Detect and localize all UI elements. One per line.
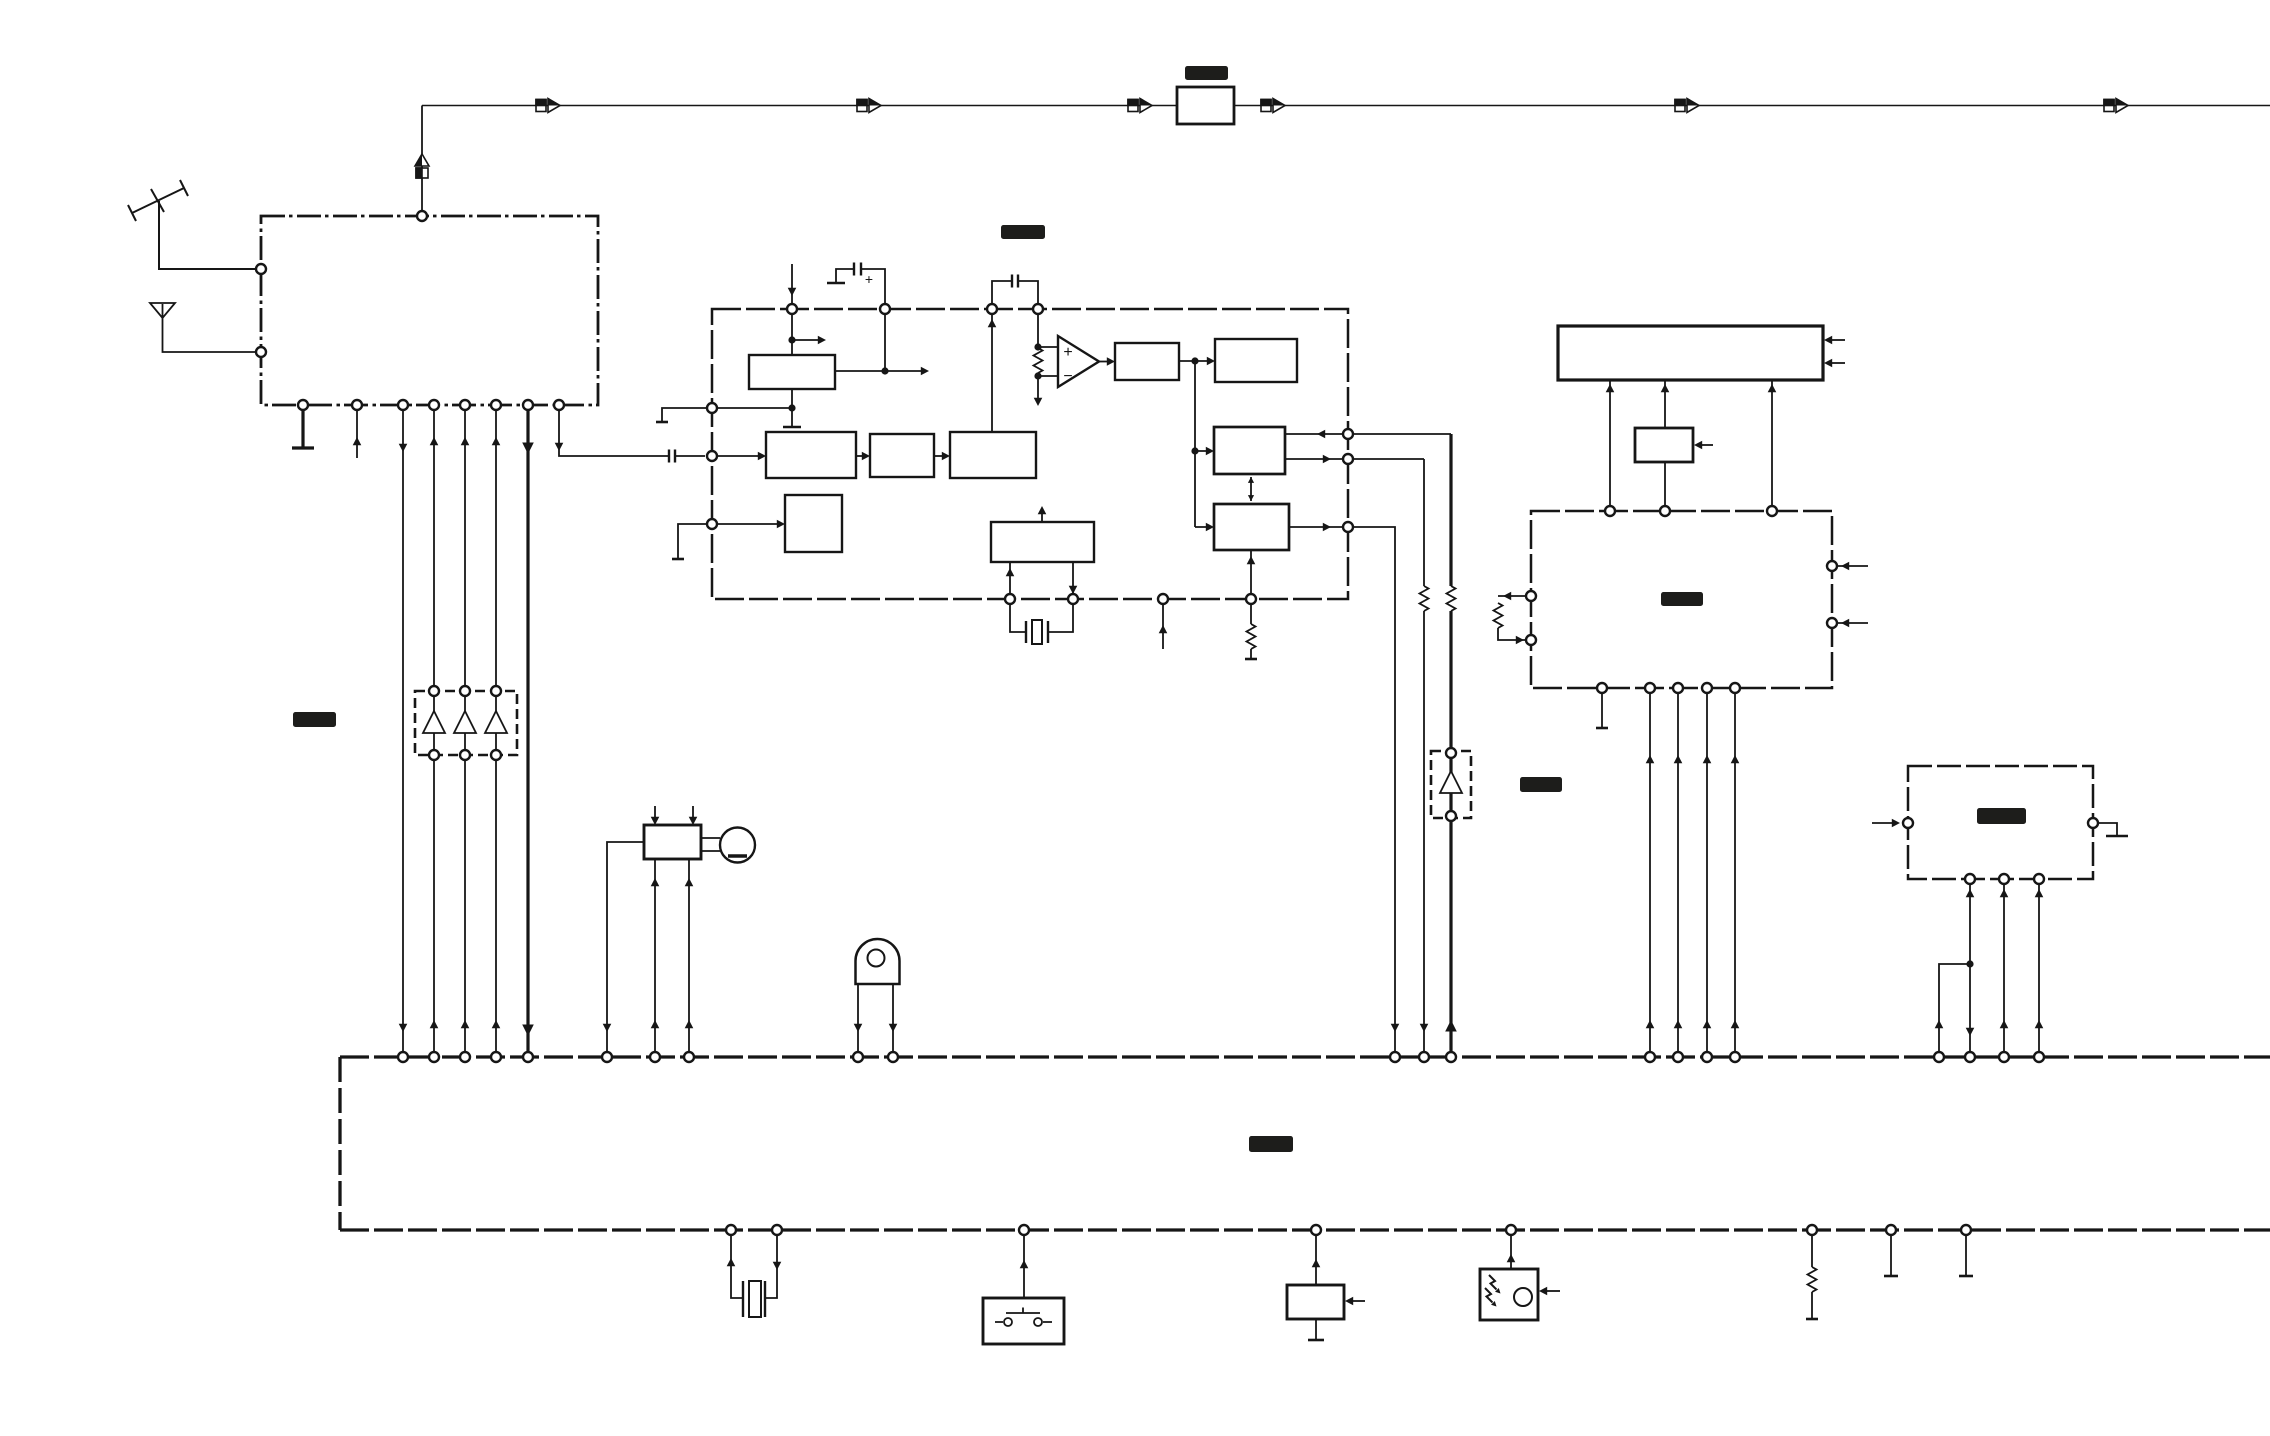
sensor box at board bottom xyxy=(1315,1230,1317,1285)
pins tuner bottom xyxy=(298,400,308,410)
pins IF IC top xyxy=(787,304,797,314)
tuner ground stub pin1 xyxy=(301,405,304,448)
tuner stub pin2 xyxy=(356,405,358,458)
pin tuner AM in xyxy=(256,347,266,357)
ground bar at bypass capacitor xyxy=(827,282,845,285)
oscillator resistor at controller left pins xyxy=(1498,596,1531,640)
in-line filter box on top bus xyxy=(1177,87,1234,124)
capacitor bridging pins T3-T4 xyxy=(992,281,1038,309)
label (redacted) on main board xyxy=(1249,1136,1293,1152)
wire B6 to pin X1 xyxy=(1009,562,1011,599)
wire IC pin R1 to main board (thick, via buffer) xyxy=(1348,433,1451,435)
crystal resonator at IC pins X1-X2 xyxy=(1010,599,1073,632)
wire left pin L3 to external ground xyxy=(678,524,712,559)
motor drive top stub 1 xyxy=(654,806,656,818)
connector symbol 4 on top bus xyxy=(1261,99,1285,113)
wire IR receiver input stub xyxy=(1544,1290,1560,1292)
internal block B2 xyxy=(766,432,856,478)
wire B9 to right pin R1 xyxy=(1285,433,1348,435)
sensor box ground xyxy=(1315,1319,1317,1340)
main board top edge (dashed) xyxy=(340,1055,2270,1058)
wire regulator branch to main board xyxy=(1939,964,1970,1057)
connector symbol 1 on top bus xyxy=(536,99,560,113)
buffer diode block (dashed) xyxy=(1431,751,1471,818)
svg-text:+: + xyxy=(865,271,873,287)
resistor divider at op-amp input xyxy=(1038,309,1058,400)
wire controller right stub 1 xyxy=(1832,565,1868,567)
wire controller right stub 2 xyxy=(1832,622,1868,624)
regulator block (dashed) xyxy=(1908,766,2093,879)
wire tuner pin6 to main board xyxy=(495,405,497,1057)
motor shaft xyxy=(701,838,720,851)
pins controller bottom xyxy=(1597,683,1607,693)
wire tuner output to top bus xyxy=(421,106,423,217)
power switch box xyxy=(1023,1230,1025,1298)
internal block B9 xyxy=(1214,427,1285,474)
pins controller top xyxy=(1605,506,1615,516)
wire B9 to right pin R2 xyxy=(1285,458,1348,460)
svg-text:−: − xyxy=(1063,368,1072,385)
wire op-amp output to B7 xyxy=(1099,361,1109,363)
wire IC pin T2 to bypass capacitor xyxy=(836,269,885,309)
internal block B4 xyxy=(950,432,1036,478)
pins controller right xyxy=(1827,561,1837,571)
internal block B7 xyxy=(1115,343,1179,380)
internal block B10 xyxy=(1214,504,1289,550)
wire IC pin R3 to main board xyxy=(1348,527,1395,1057)
diode array block (dashed) xyxy=(415,691,517,755)
main board left edge (dashed) xyxy=(338,1057,341,1230)
internal block B6 xyxy=(991,522,1094,562)
internal block B5 xyxy=(785,495,842,552)
wire regulator pin 2 to main board xyxy=(2003,879,2005,1057)
connector symbol vertical on tuner wire xyxy=(415,154,429,178)
switch contacts xyxy=(1004,1318,1012,1326)
svg-text:+: + xyxy=(1063,344,1072,361)
internal block B3 xyxy=(870,434,934,477)
wire internal VCO junction with arrow xyxy=(792,309,820,355)
wire tuner pin7 to main board (thick) xyxy=(526,405,529,1057)
label (redacted) for filter box xyxy=(1185,66,1228,80)
wire B10 bottom to pin X4 xyxy=(1250,550,1252,599)
controller ground stub xyxy=(1601,688,1603,728)
connector symbol 2 on top bus xyxy=(857,99,881,113)
wire B6 to pin X2 xyxy=(1072,562,1074,599)
connector symbol 5 on top bus xyxy=(1675,99,1699,113)
driver box xyxy=(1635,428,1693,462)
main board bottom edge (dashed) xyxy=(340,1228,2270,1231)
wire tuner pin5 to main board xyxy=(464,405,466,1057)
label (redacted) above IF IC xyxy=(1001,225,1045,239)
IF/decoder IC block (dashed) xyxy=(712,309,1348,599)
wire controller to main board 4 xyxy=(1734,688,1736,1057)
ground stub at board bottom 1 xyxy=(1890,1230,1892,1276)
resistor to ground at IC bottom pin X4 xyxy=(1250,599,1252,659)
wire top signal bus xyxy=(422,105,2270,107)
motor rotor xyxy=(720,828,755,863)
wire motor box to main board (left elbow) xyxy=(607,842,644,1057)
wire B4 top to pin T3 xyxy=(991,309,993,432)
wire tuner pin8 to IF input cap xyxy=(559,405,705,456)
wire driver input stub xyxy=(1699,444,1713,446)
wire controller to main board 1 xyxy=(1649,688,1651,1057)
IR rays xyxy=(1489,1275,1497,1290)
pins IF IC bottom xyxy=(1005,594,1015,604)
wire sensor box input stub xyxy=(1350,1300,1365,1302)
wire left pin L3 into B5 xyxy=(712,523,779,525)
capacitor IF input xyxy=(669,450,675,463)
wire controller to main board 3 xyxy=(1706,688,1708,1057)
wire B1 right output with arrow xyxy=(835,309,923,371)
wire motor box to main board 2 xyxy=(654,859,656,1057)
wire controller pin to display 1 xyxy=(1609,380,1611,511)
wire B6 top arrow xyxy=(1041,510,1043,522)
wire controller to main board 2 xyxy=(1677,688,1679,1057)
pin buffer bottom xyxy=(1446,811,1456,821)
wire B1 bottom to left pin L1 xyxy=(712,389,792,427)
FM antenna xyxy=(128,180,261,269)
wire vertical feed to B9 and B10 xyxy=(1195,361,1208,527)
AM loop antenna xyxy=(150,303,261,352)
IR receiver photo detector xyxy=(1514,1288,1532,1306)
pin tuner FM in xyxy=(256,264,266,274)
wire LED leg 2 xyxy=(892,984,894,1057)
polarized capacitor at pin T2 xyxy=(854,263,861,276)
display box xyxy=(1558,326,1823,380)
label (redacted) left of diode array xyxy=(293,712,336,727)
pins main board bottom edge xyxy=(726,1225,736,1235)
wire regulator input stub xyxy=(1872,822,1894,824)
wire regulator pin 1 to main board xyxy=(1969,879,1971,1057)
wire controller pin to display 3 xyxy=(1771,380,1773,511)
main crystal at board bottom xyxy=(731,1230,777,1298)
wire controller pin to driver and display 2 xyxy=(1664,380,1666,511)
indicator LED xyxy=(856,939,900,984)
wire B10 to right pin R3 xyxy=(1289,526,1348,528)
motor drive top stub 2 xyxy=(692,806,694,818)
ground stub at board bottom 2 xyxy=(1965,1230,1967,1276)
label (redacted) inside controller xyxy=(1661,592,1703,606)
stub at IC bottom pin X3 xyxy=(1162,599,1164,649)
internal block B1 xyxy=(749,355,835,389)
wire B3 to B4 xyxy=(934,455,944,457)
connector symbol 3 on top bus xyxy=(1128,99,1152,113)
pins main board top edge xyxy=(398,1052,408,1062)
wire LED leg 1 xyxy=(857,984,859,1057)
wire display input stub 1 xyxy=(1829,339,1845,341)
wire tuner pin3 to main board xyxy=(402,405,404,1057)
pins IF IC left xyxy=(707,403,717,413)
wire display input stub 2 xyxy=(1829,362,1845,364)
connector symbol 6 on top bus xyxy=(2104,99,2128,113)
diode 3 in array xyxy=(485,711,507,733)
wire tuner pin4 to main board xyxy=(433,405,435,1057)
op-amp comparator xyxy=(1058,336,1099,387)
buffer diode triangle xyxy=(1440,771,1462,793)
internal block B8 xyxy=(1215,339,1297,382)
pin tuner top xyxy=(417,211,427,221)
system controller IC (dashed) xyxy=(1531,511,1832,688)
regulator ground xyxy=(2093,823,2117,836)
IR remote receiver xyxy=(1510,1230,1512,1269)
wire left pin L1 to external ground xyxy=(662,408,712,422)
resistor to ground at board bottom xyxy=(1811,1230,1813,1319)
label (redacted) right of buffer xyxy=(1520,777,1562,792)
tuner block (dash-dot border) xyxy=(261,216,598,405)
wire B9-B10 double arrow xyxy=(1250,477,1252,501)
wire regulator pin 3 to main board xyxy=(2038,879,2040,1057)
pins regulator xyxy=(1903,818,1913,828)
wire IC pin R2 to main board xyxy=(1348,459,1424,1057)
label (redacted) inside regulator xyxy=(1977,808,2026,824)
wire B2 to B3 xyxy=(856,455,864,457)
wire B7 to B8 xyxy=(1179,360,1209,362)
pins diode array xyxy=(429,686,439,696)
pin buffer top xyxy=(1446,748,1456,758)
diode 1 in array xyxy=(423,711,445,733)
pins IF IC right xyxy=(1343,429,1353,439)
wire left pin L2 into B2 xyxy=(712,455,760,457)
pins controller left xyxy=(1526,591,1536,601)
wire supply stub into IC pin T1 xyxy=(791,264,793,309)
diode 2 in array xyxy=(454,711,476,733)
wire motor box to main board 3 xyxy=(688,859,690,1057)
motor drive box xyxy=(644,825,701,859)
